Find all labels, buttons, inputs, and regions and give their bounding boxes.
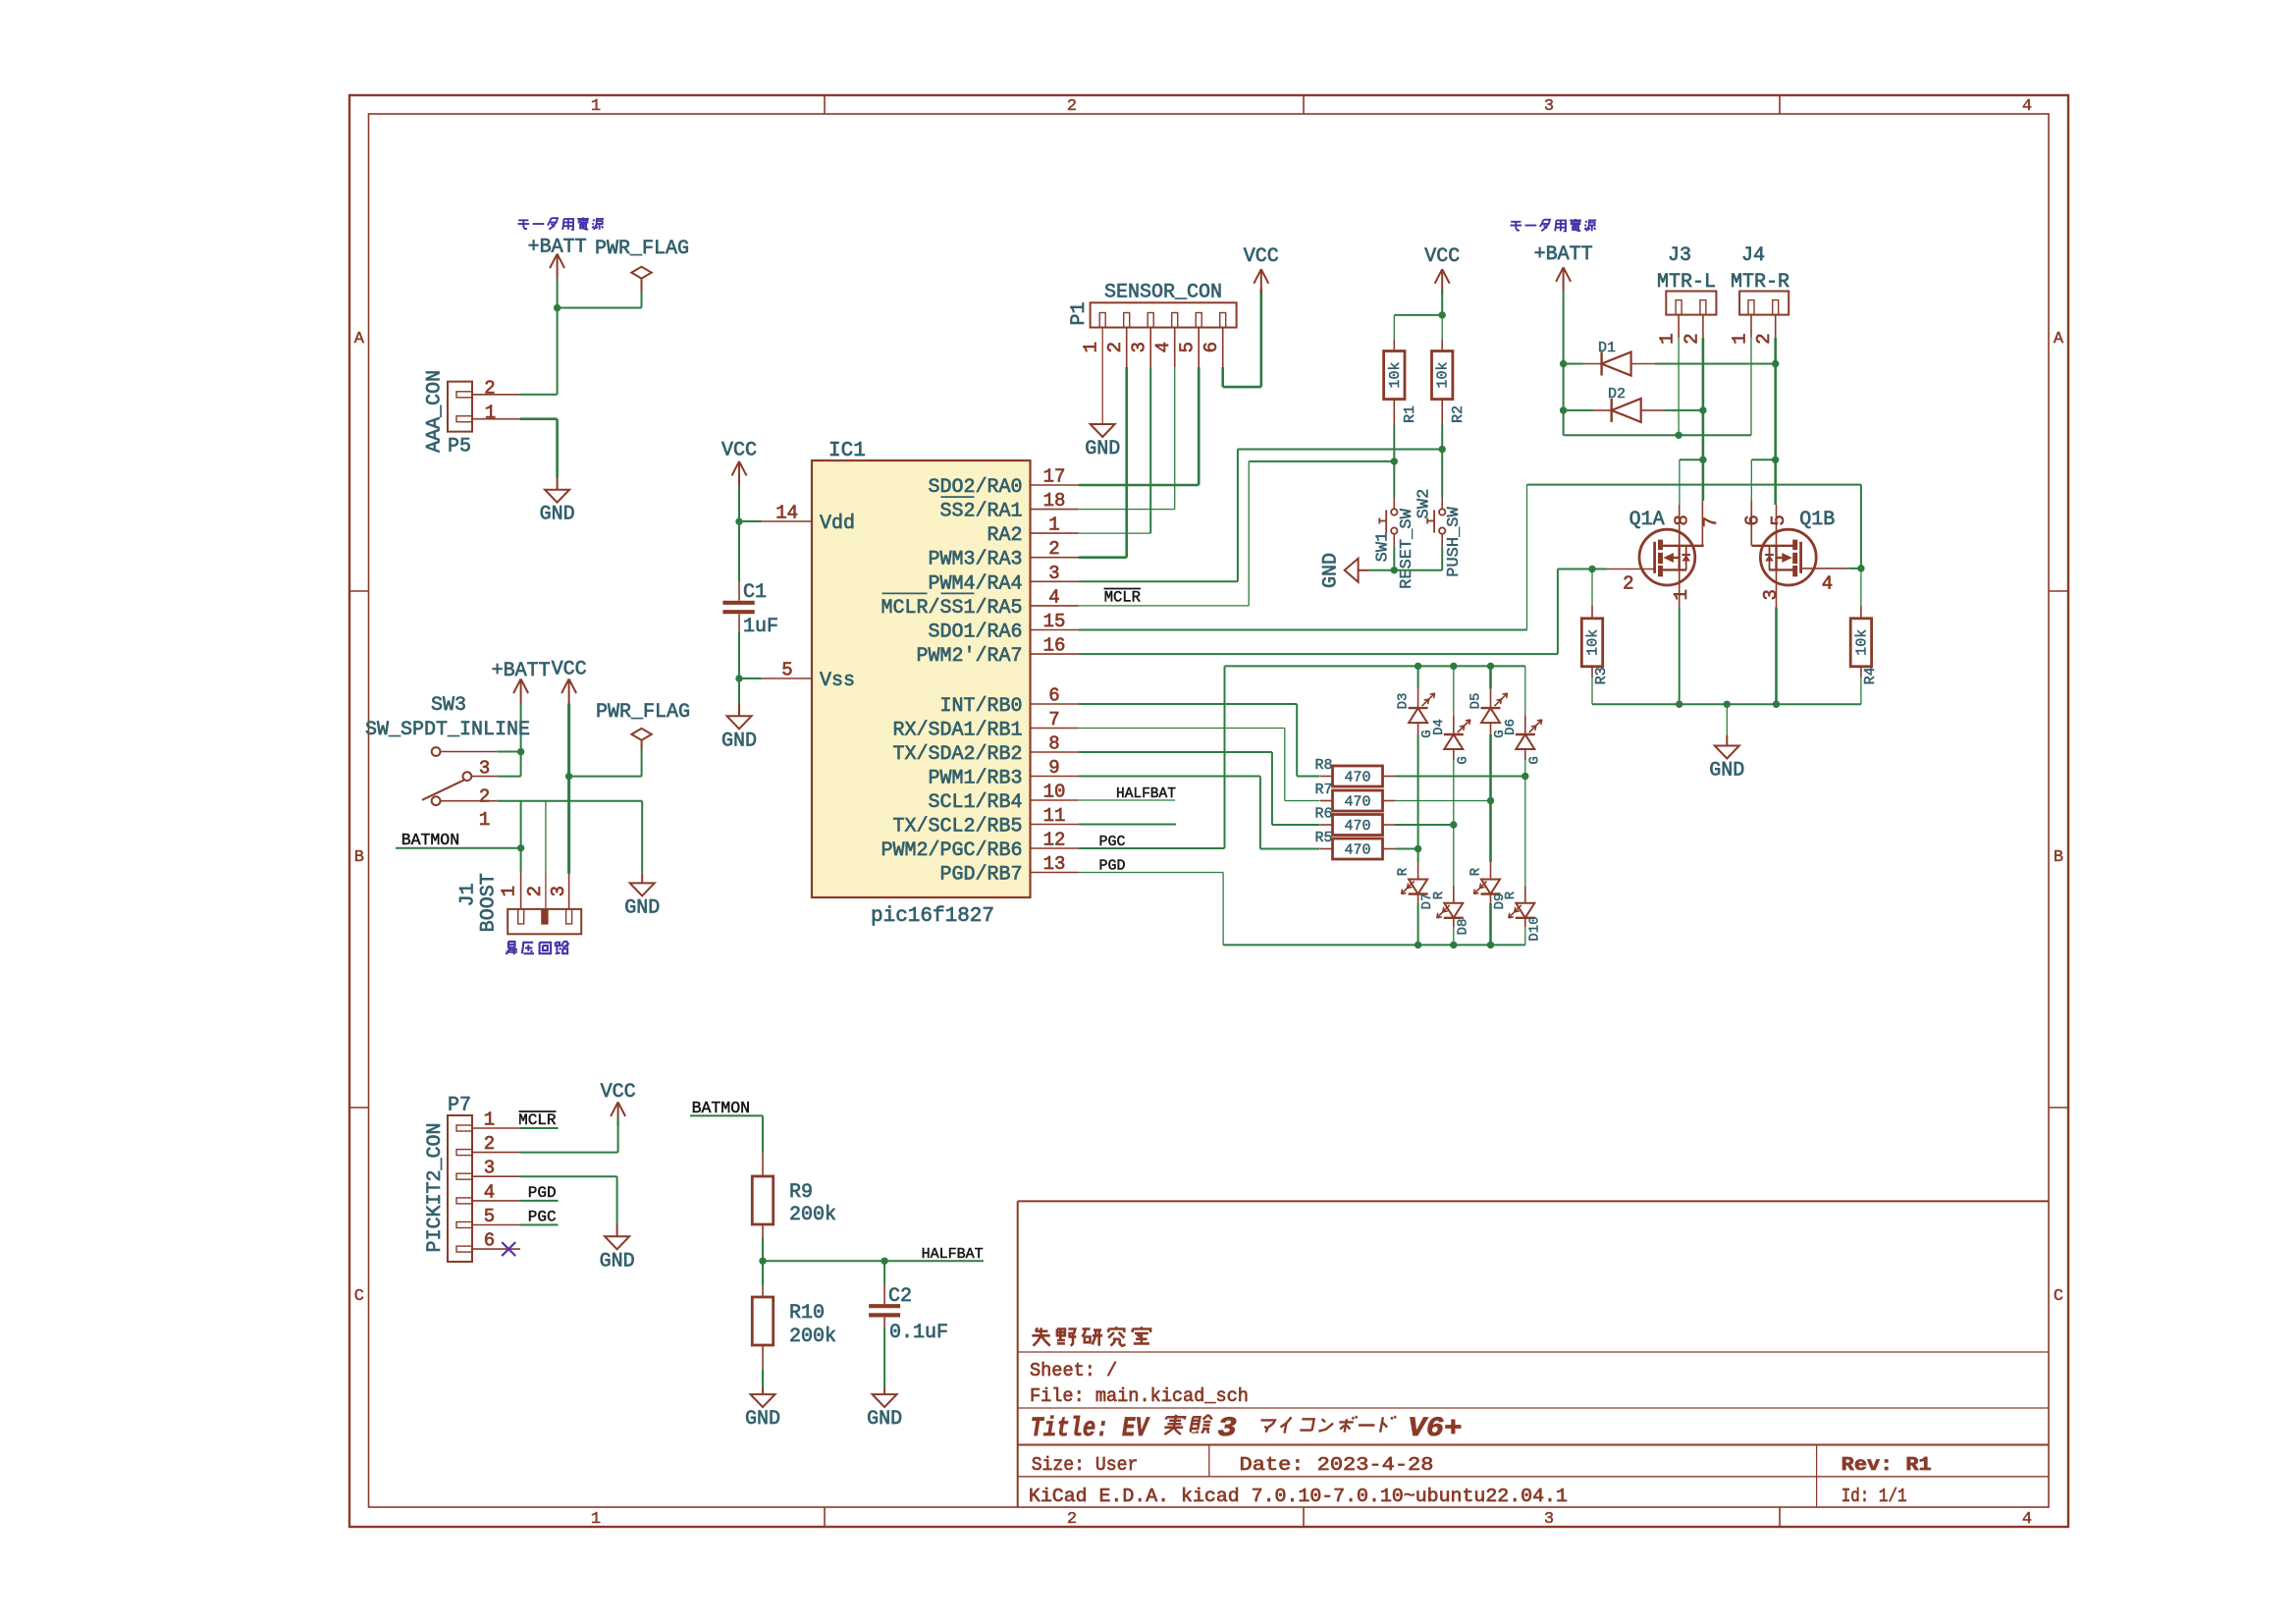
svg-text:2: 2 (524, 886, 546, 896)
svg-text:PWM4/RA4: PWM4/RA4 (929, 572, 1023, 595)
wire D10 to bottom rail (1524, 927, 1526, 945)
wire HALFBAT row (763, 1260, 984, 1262)
wire Vss to GND (738, 678, 740, 703)
transistor Q1B (n-mosfet right) (1760, 529, 1816, 585)
svg-text:R6: R6 (1314, 806, 1332, 823)
svg-text:D4: D4 (1431, 719, 1447, 735)
pin 7 drain of Q1A (1701, 501, 1703, 546)
resistor R3 10k (1591, 569, 1593, 607)
pin 5 Vss of IC1 (762, 677, 812, 679)
wire +BATT down to connector (557, 308, 559, 395)
svg-text:470: 470 (1344, 842, 1370, 859)
wire R9 to HALFBAT (762, 1238, 764, 1261)
svg-text:RESET_SW: RESET_SW (1398, 508, 1416, 588)
pin 1 of P1 (1099, 313, 1105, 328)
svg-text:1: 1 (499, 886, 520, 896)
svg-text:17: 17 (1043, 466, 1066, 488)
junction +BATT switch (517, 748, 524, 755)
pin 3 PWM4/RA4 of IC1 (1031, 580, 1079, 582)
svg-text:GND: GND (1709, 760, 1744, 783)
pin 1 of P7 (456, 1125, 472, 1131)
switch SW2 PUSH_SW (1441, 450, 1443, 498)
svg-text:C: C (2054, 1287, 2063, 1306)
svg-text:R: R (1396, 867, 1412, 876)
svg-text:PWM1/RB3: PWM1/RB3 (929, 768, 1023, 790)
junction Q1A gate node (1588, 566, 1595, 572)
svg-text:P5: P5 (448, 436, 471, 459)
wire +BATT column (1563, 364, 1565, 410)
svg-text:RA2: RA2 (988, 524, 1023, 547)
pin1 wire P1 to GND (1101, 328, 1103, 425)
pin 1 source of Q1A (1679, 569, 1681, 607)
label HALFBAT (IC) (1079, 799, 1176, 801)
svg-text:Vss: Vss (820, 670, 855, 692)
svg-text:A: A (354, 330, 365, 349)
power VCC (pullups) (1435, 269, 1443, 284)
wire R6 to D4 column (1395, 824, 1454, 826)
svg-text:R1: R1 (1402, 406, 1418, 423)
wire D1 to J4.2 (1655, 363, 1776, 365)
pin 6 INT/RB0 of IC1 (1031, 703, 1079, 705)
wire R5 to D3 column (1395, 848, 1418, 850)
wire source/gnd bottom row (1592, 703, 1861, 705)
wire D4 to R6 node (1453, 760, 1455, 825)
svg-text:R3: R3 (1593, 667, 1610, 684)
power +BATT (switch feed) (513, 679, 521, 694)
svg-text:SW1: SW1 (1374, 532, 1393, 563)
wire Q1A.8 up (1679, 460, 1681, 505)
svg-text:Vdd: Vdd (820, 513, 855, 535)
svg-text:MCLR/SS1/RA5: MCLR/SS1/RA5 (881, 597, 1023, 620)
led D9 red (1489, 801, 1492, 863)
pin 8 TX/SDA2/RB2 of IC1 (1031, 751, 1079, 753)
svg-text:SS2/RA1: SS2/RA1 (940, 501, 1023, 523)
pin 1 of J4 (1750, 315, 1752, 338)
wire P7.2 to VCC (520, 1152, 618, 1154)
wire R10 to GND (762, 1370, 764, 1388)
svg-text:MCLR: MCLR (1104, 589, 1141, 607)
svg-text:470: 470 (1344, 770, 1370, 786)
svg-text:+BATT: +BATT (1534, 244, 1593, 266)
resistor R8 470 (1333, 766, 1383, 786)
pin 1 RA2 of IC1 (1031, 532, 1079, 534)
svg-text:1: 1 (591, 1510, 601, 1529)
pin 3 source of Q1B (1776, 569, 1778, 607)
power VCC (sensor) (1254, 269, 1261, 284)
svg-text:D6: D6 (1503, 719, 1519, 735)
svg-text:GND: GND (624, 896, 660, 919)
wire J3.1 to +BATT row (1678, 338, 1680, 435)
svg-text:VCC: VCC (601, 1081, 636, 1104)
svg-text:P1: P1 (1068, 301, 1091, 325)
wire +BATT stub (557, 279, 559, 308)
svg-text:V6+: V6+ (1408, 1414, 1463, 1444)
svg-text:D3: D3 (1396, 693, 1412, 710)
wire SW3.3 to +BATT junction (498, 751, 521, 753)
svg-text:D8: D8 (1455, 919, 1470, 936)
wire RA4 row (1238, 449, 1442, 451)
svg-text:8: 8 (1048, 733, 1059, 755)
svg-text:R: R (1468, 867, 1484, 876)
svg-text:D1: D1 (1598, 340, 1616, 356)
wire P5.2 to +BATT (520, 394, 558, 396)
junction J4.2 D1 (1772, 360, 1779, 367)
pin 1 of SW3 (441, 800, 498, 802)
svg-text:R4: R4 (1862, 667, 1879, 684)
wire SW1 to GND (1393, 546, 1395, 569)
svg-text:1: 1 (484, 1110, 495, 1131)
pin 4 of P1 (1172, 313, 1178, 328)
resistor R1 10k (1393, 339, 1395, 351)
svg-text:3: 3 (1217, 1414, 1237, 1444)
svg-text:GND: GND (540, 504, 575, 526)
svg-text:9: 9 (1048, 757, 1059, 779)
svg-text:Title: EV: Title: EV (1031, 1414, 1150, 1444)
pin 8 drain of Q1A (1679, 505, 1681, 546)
ic U IC1 pic16f1827 body (812, 460, 1031, 897)
svg-text:R: R (1503, 891, 1519, 899)
pin 2 PWM3/RA3 of IC1 (1031, 557, 1079, 559)
svg-text:4: 4 (1048, 586, 1059, 608)
svg-text:2: 2 (484, 378, 495, 400)
wire RB0 to R8 (1079, 703, 1298, 705)
svg-text:12: 12 (1043, 830, 1066, 851)
pin 6 of P7 (456, 1246, 472, 1252)
frame row ticks (349, 590, 369, 592)
capacitor C2 0.1uF (883, 1261, 885, 1283)
svg-text:GND: GND (600, 1250, 635, 1272)
wire Q1A.7 up (1702, 460, 1705, 501)
svg-text:3: 3 (1544, 97, 1554, 116)
wire Q1B.6 up (1750, 460, 1752, 501)
pin 9 PWM1/RB3 of IC1 (1031, 776, 1079, 778)
svg-text:R5: R5 (1314, 830, 1332, 846)
title block outline (1018, 1200, 2049, 1202)
pin 5 of P1 (1196, 313, 1201, 328)
svg-text:15: 15 (1043, 611, 1066, 632)
resistor R6 470 (1333, 815, 1383, 836)
svg-text:2: 2 (1681, 333, 1702, 344)
svg-text:A: A (2054, 330, 2064, 349)
svg-text:PWM2/PGC/RB6: PWM2/PGC/RB6 (881, 839, 1023, 862)
wire RB5 stub (1079, 824, 1177, 826)
svg-text:Q1A: Q1A (1629, 509, 1665, 531)
wire VCC main vertical (567, 704, 570, 874)
svg-text:Id: 1/1: Id: 1/1 (1842, 1486, 1907, 1507)
wire VCC to Vdd (738, 486, 740, 521)
wire VCC to R1 (1394, 314, 1442, 316)
junction Vss node (735, 675, 742, 681)
svg-text:R: R (1431, 891, 1447, 899)
svg-text:R2: R2 (1450, 406, 1467, 423)
pin 7 RX/SDA1/RB1 of IC1 (1031, 728, 1079, 730)
svg-text:HALFBAT: HALFBAT (922, 1246, 984, 1263)
wire P7.5 PGC (520, 1224, 559, 1226)
svg-text:10k: 10k (1853, 629, 1870, 656)
wire C1 to Vss (738, 631, 740, 678)
pin 2 of J3 (1702, 315, 1704, 338)
junction VCC pullup (1439, 311, 1446, 318)
svg-text:R7: R7 (1314, 782, 1332, 798)
wire J4.2 column (1774, 338, 1777, 364)
svg-text:J3: J3 (1668, 244, 1691, 267)
ground GND (motor) (1726, 735, 1728, 746)
pin 1 of P5 (472, 418, 520, 420)
svg-text:6: 6 (1048, 685, 1059, 707)
pin 5 of P7 (456, 1222, 472, 1228)
text note motor power (right) (1511, 221, 1521, 223)
svg-text:SW3: SW3 (431, 694, 466, 717)
svg-text:0.1uF: 0.1uF (889, 1322, 948, 1344)
wire +BATT to J3.1/J4.1 (1564, 434, 1751, 436)
svg-text:200k: 200k (789, 1326, 836, 1348)
junction MCLR node (1391, 458, 1398, 464)
wire D5 to R7 node (1489, 734, 1492, 801)
pin 14 Vdd of IC1 (762, 520, 812, 522)
ground GND (switches, pointing left) (1369, 569, 1395, 571)
power +BATT (battery input) (550, 254, 558, 269)
svg-text:PGD/RB7: PGD/RB7 (940, 864, 1023, 887)
svg-text:PWM2'/RA7: PWM2'/RA7 (917, 645, 1023, 668)
pin 11 TX/SCL2/RB5 of IC1 (1031, 824, 1079, 826)
sheet border outer frame (349, 95, 2068, 1527)
svg-text:2: 2 (1067, 1510, 1077, 1529)
wire P1.5 to IC RA0 (1198, 328, 1200, 368)
wire P1.4 to IC RA1 (1174, 328, 1176, 368)
pin 18 SS2/RA1 of IC1 (1031, 509, 1079, 511)
junction J3.1 column (1675, 432, 1682, 439)
svg-text:Date: 2023-4-28: Date: 2023-4-28 (1240, 1454, 1434, 1476)
wire P1.3 to IC RA2 (1149, 328, 1151, 368)
diode D2 (1564, 409, 1593, 411)
ground GND (C2) (883, 1388, 885, 1395)
pin 4 gate of Q1B (1801, 568, 1849, 569)
wire J4.1 to +BATT row (1750, 338, 1752, 435)
frame column ticks (824, 95, 826, 114)
junction HALFBAT divider (759, 1258, 766, 1265)
pin 4 MCLR/SS1/RA5 of IC1 (1031, 605, 1079, 607)
junction Q1A drain node (1699, 457, 1706, 463)
svg-text:B: B (354, 848, 364, 867)
pin 16 PWM2'/RA7 of IC1 (1031, 653, 1079, 655)
pin 13 PGD/RB7 of IC1 (1031, 872, 1079, 874)
svg-text:SDO2/RA0: SDO2/RA0 (929, 476, 1023, 499)
svg-text:Size: User: Size: User (1032, 1454, 1139, 1476)
wire RB7 PGD to LED cathode rail (1079, 872, 1224, 874)
svg-text:1: 1 (1081, 342, 1102, 352)
svg-text:8: 8 (1672, 514, 1693, 525)
svg-text:J4: J4 (1741, 244, 1765, 267)
junction GND stem (1724, 701, 1731, 708)
power VCC (boost output) (561, 679, 569, 694)
svg-text:SCL1/RB4: SCL1/RB4 (929, 791, 1023, 814)
svg-text:4: 4 (1822, 573, 1833, 595)
svg-text:J1: J1 (457, 883, 480, 906)
svg-text:B: B (2054, 848, 2063, 867)
pin 6 of P1 (1220, 313, 1226, 328)
wire D2 to J3.2 (1665, 409, 1703, 411)
junction RA4 node (1439, 446, 1446, 453)
svg-text:BOOST: BOOST (478, 873, 501, 932)
svg-text:1uF: 1uF (743, 616, 778, 638)
svg-text:3: 3 (1544, 1510, 1554, 1529)
svg-text:IC1: IC1 (828, 440, 866, 462)
wire R7 to D5 column (1395, 800, 1491, 802)
svg-text:C2: C2 (888, 1285, 912, 1308)
no-connect X on P7.6 (502, 1242, 515, 1256)
svg-text:6: 6 (484, 1230, 495, 1252)
svg-text:4: 4 (484, 1181, 495, 1203)
ground GND (pickit) (616, 1224, 618, 1237)
wire Q1A source down (1679, 607, 1681, 704)
wire J1 pin3 stub (568, 874, 570, 909)
wire P5.1 to GND (520, 417, 558, 420)
pin 3 of P7 (456, 1173, 472, 1179)
svg-text:3: 3 (1048, 563, 1059, 584)
junction BATMON node (517, 844, 524, 851)
svg-text:+BATT: +BATT (492, 660, 551, 682)
wire RB2 to R6 (1079, 751, 1272, 753)
pin 6 drain of Q1B (1750, 501, 1752, 546)
pin 2 of J4 (1775, 315, 1777, 338)
svg-text:C: C (354, 1287, 364, 1306)
led D6 green (1524, 666, 1526, 715)
svg-text:2: 2 (479, 786, 490, 808)
svg-text:13: 13 (1043, 853, 1066, 875)
wire LED bottom rail (1223, 944, 1525, 946)
capacitor C1 (738, 581, 740, 601)
pin 4 of P7 (456, 1198, 472, 1204)
wire D8 to bottom rail (1453, 927, 1455, 945)
svg-text:14: 14 (775, 503, 798, 524)
wire R1 to MCLR node (1393, 425, 1395, 461)
ground GND (boost input side) (641, 874, 643, 884)
svg-text:6: 6 (1741, 514, 1763, 525)
ground GND (IC) (738, 703, 740, 717)
resistor R7 470 (1333, 790, 1383, 811)
resistor R9 200k (762, 1153, 764, 1176)
wire RA6 route to Q1B gate (1079, 629, 1527, 631)
svg-text:PWR_FLAG: PWR_FLAG (596, 701, 690, 724)
svg-text:1: 1 (1671, 589, 1692, 600)
pin 10 SCL1/RB4 of IC1 (1031, 799, 1079, 801)
led D7 red (1417, 849, 1419, 863)
svg-text:4: 4 (2022, 1510, 2032, 1529)
junction D1 row (1560, 360, 1567, 367)
svg-text:D5: D5 (1468, 693, 1484, 710)
resistor R10 200k (762, 1261, 764, 1285)
svg-text:BATMON: BATMON (692, 1099, 750, 1117)
svg-text:R10: R10 (789, 1302, 825, 1325)
transistor Q1A (n-mosfet left) (1639, 529, 1695, 585)
svg-text:200k: 200k (789, 1204, 836, 1226)
power VCC (IC supply) (732, 461, 740, 476)
connector J1 BOOST (507, 909, 581, 934)
svg-text:3: 3 (1760, 589, 1782, 600)
svg-text:1: 1 (1048, 514, 1059, 536)
svg-text:10k: 10k (1435, 361, 1452, 388)
pin 2 of SW3 (471, 776, 497, 778)
svg-text:BATMON: BATMON (401, 831, 459, 849)
svg-text:G: G (1455, 756, 1470, 764)
text note boost circuit (508, 942, 515, 947)
pin 5 drain of Q1B (1776, 505, 1778, 546)
svg-text:pic16f1827: pic16f1827 (871, 905, 994, 928)
svg-text:Sheet: /: Sheet: / (1030, 1360, 1117, 1381)
svg-text:VCC: VCC (721, 439, 757, 461)
svg-text:TX/SDA2/RB2: TX/SDA2/RB2 (893, 743, 1023, 766)
wire VCC to C1 (738, 521, 740, 581)
wire pwr_flag to junction (641, 292, 643, 307)
svg-text:VCC: VCC (1424, 245, 1460, 268)
junction +BATT node (554, 304, 561, 311)
svg-text:470: 470 (1344, 794, 1370, 811)
svg-text:File: main.kicad_sch: File: main.kicad_sch (1030, 1385, 1249, 1407)
svg-text:KiCad E.D.A. kicad 7.0.10-7.0: KiCad E.D.A. kicad 7.0.10-7.0.10~ubuntu2… (1029, 1486, 1568, 1507)
svg-text:GND: GND (1085, 438, 1120, 460)
svg-text:GND: GND (1320, 553, 1343, 588)
svg-text:10: 10 (1043, 782, 1066, 803)
svg-text:Q1B: Q1B (1799, 509, 1835, 531)
svg-text:3: 3 (484, 1158, 495, 1179)
ground GND (sensor) (1091, 424, 1115, 437)
svg-text:MCLR: MCLR (518, 1111, 557, 1129)
led D3 green (1417, 666, 1419, 688)
pin 1 of J3 (1678, 315, 1680, 338)
wire J1 pin2 column (545, 801, 547, 873)
svg-text:PICKIT2_CON: PICKIT2_CON (424, 1122, 447, 1252)
svg-text:4: 4 (2022, 97, 2032, 116)
wire SW3.1 row down to GND (641, 801, 643, 874)
wire R2 to RA4 node (1441, 425, 1443, 450)
svg-text:6: 6 (1201, 342, 1222, 352)
pin 15 SDO1/RA6 of IC1 (1031, 629, 1079, 631)
resistor R4 10k (1860, 568, 1862, 606)
svg-text:1: 1 (1730, 333, 1751, 344)
pin 2 gate of Q1A (1607, 568, 1655, 570)
svg-text:PGC: PGC (528, 1209, 557, 1226)
svg-text:P7: P7 (448, 1094, 471, 1116)
sheet border inner frame (369, 114, 2050, 1507)
svg-text:INT/RB0: INT/RB0 (940, 695, 1023, 718)
svg-text:GND: GND (745, 1408, 780, 1431)
svg-text:C1: C1 (743, 581, 767, 604)
pin 2 of P7 (456, 1150, 472, 1156)
wire J3.2 column (1702, 338, 1705, 410)
wire P1.6 to VCC (1222, 328, 1224, 368)
pin 3 of P1 (1148, 313, 1153, 328)
wire GND stem motor (1726, 704, 1728, 734)
led D4 green (1453, 666, 1455, 715)
wire R8 to D6 column (1395, 776, 1525, 778)
wire P7.3 to GND (520, 1175, 617, 1177)
svg-text:SDO1/RA6: SDO1/RA6 (929, 622, 1023, 644)
junction SW GND node (1391, 567, 1398, 573)
svg-text:PGD: PGD (528, 1184, 557, 1202)
svg-text:1: 1 (485, 403, 496, 424)
led D8 red (1453, 825, 1455, 887)
wire D9 to bottom rail (1489, 903, 1492, 945)
wire RB3 to R5 (1079, 776, 1260, 778)
pin 12 PWM2/PGC/RB6 of IC1 (1031, 847, 1079, 849)
wire BATMON (396, 847, 521, 849)
wire C2 to GND (883, 1327, 885, 1388)
svg-text:SENSOR_CON: SENSOR_CON (1104, 282, 1222, 304)
svg-text:2: 2 (1048, 538, 1059, 560)
svg-text:D10: D10 (1526, 916, 1542, 941)
wire J1 pin1 column (520, 801, 522, 873)
power VCC (pickit) (611, 1102, 618, 1116)
